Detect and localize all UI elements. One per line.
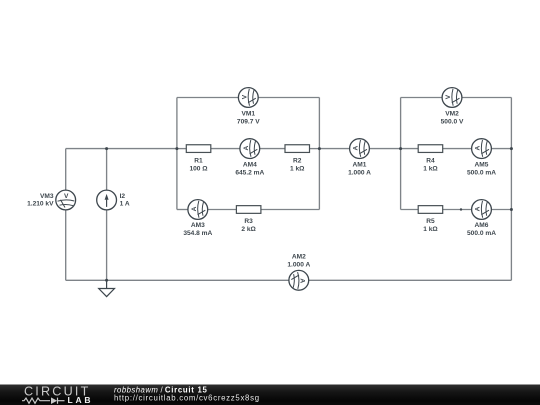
- svg-text:LAB: LAB: [68, 395, 94, 405]
- wire VM3 vertical top: [65, 149, 67, 191]
- wire mid branch to R1: [177, 148, 186, 150]
- svg-text:V: V: [64, 193, 69, 200]
- svg-text:A: A: [299, 278, 306, 283]
- wire R1 to AM4: [211, 148, 240, 150]
- wire top branch VM2 left: [401, 97, 443, 99]
- wire bottom branch to AM3: [177, 209, 188, 211]
- wire VM3 vertical bottom: [65, 210, 67, 280]
- svg-text:354.8 mA: 354.8 mA: [183, 230, 212, 237]
- svg-text:A: A: [475, 206, 482, 211]
- wire AM5 to node: [491, 148, 511, 150]
- wire top branch VM1 left: [177, 97, 239, 99]
- current source I2: [97, 190, 117, 210]
- ammeter AM1: [350, 139, 370, 159]
- wire node to AM1: [319, 148, 349, 150]
- svg-text:AM2: AM2: [292, 254, 306, 261]
- svg-text:VM2: VM2: [445, 110, 459, 117]
- svg-text:R3: R3: [244, 218, 253, 225]
- svg-text:1.000 A: 1.000 A: [287, 262, 310, 269]
- svg-text:500.0 mA: 500.0 mA: [467, 169, 496, 176]
- svg-text:1 A: 1 A: [120, 200, 130, 207]
- wire to R4: [401, 148, 419, 150]
- svg-text:VM1: VM1: [242, 110, 256, 117]
- logo resistor zigzag and diode glyph: [22, 398, 65, 404]
- wire AM6 to node: [491, 209, 511, 211]
- svg-text:100 Ω: 100 Ω: [189, 165, 208, 172]
- resistor R3: [236, 206, 261, 214]
- svg-text:V: V: [445, 94, 452, 99]
- resistor R5: [418, 206, 443, 214]
- wire R2 to node: [310, 148, 320, 150]
- svg-text:VM3: VM3: [40, 193, 54, 200]
- svg-text:1.000 A: 1.000 A: [348, 169, 371, 176]
- wire R3 to corner: [261, 209, 320, 211]
- svg-text:1 kΩ: 1 kΩ: [423, 165, 438, 172]
- svg-text:A: A: [243, 145, 250, 150]
- junction node left-block/mid branch: [175, 147, 178, 150]
- voltmeter VM3: [56, 190, 76, 210]
- svg-text:AM1: AM1: [353, 161, 367, 168]
- svg-text:A: A: [191, 206, 198, 211]
- wire right-block right vertical: [510, 98, 512, 281]
- svg-text:500.0 V: 500.0 V: [441, 118, 464, 125]
- svg-text:A: A: [475, 145, 482, 150]
- svg-text:A: A: [353, 145, 360, 150]
- junction node R5-AM6: [460, 208, 462, 210]
- wire AM3 to R3: [208, 209, 237, 211]
- wire I2 vertical top: [106, 149, 108, 190]
- wire bottom right of AM2: [309, 279, 512, 281]
- svg-text:500.0 mA: 500.0 mA: [467, 230, 496, 237]
- svg-text:1 kΩ: 1 kΩ: [423, 226, 438, 233]
- wire middle-block left vertical: [176, 98, 178, 210]
- wire R4 to AM5: [443, 148, 472, 150]
- wire I2 vertical bottom: [106, 210, 108, 280]
- svg-text:I2: I2: [120, 193, 126, 200]
- junction node right-block mid left: [399, 147, 402, 150]
- wire top-left feed: [66, 148, 177, 150]
- junction node mid-branch right: [318, 147, 321, 150]
- ammeter AM5: [472, 139, 492, 159]
- svg-text:AM5: AM5: [475, 161, 489, 168]
- resistor R2: [285, 145, 310, 153]
- svg-text:R4: R4: [426, 157, 435, 164]
- ammeter AM3: [188, 200, 208, 220]
- svg-text:R2: R2: [293, 157, 302, 164]
- ammeter AM4: [240, 139, 260, 159]
- wire bottom left of AM2: [66, 279, 289, 281]
- resistor R4: [418, 145, 443, 153]
- wire to R5: [401, 209, 419, 211]
- voltmeter VM2: [442, 88, 462, 108]
- wire top branch VM1 right: [258, 97, 319, 99]
- ammeter AM6: [472, 200, 492, 220]
- svg-text:http://circuitlab.com/cv6crezz: http://circuitlab.com/cv6crezz5x8sg: [114, 393, 260, 402]
- svg-text:R5: R5: [426, 218, 435, 225]
- wire AM4 to R2: [260, 148, 285, 150]
- svg-text:R1: R1: [194, 157, 203, 164]
- junction node ground: [105, 279, 108, 282]
- junction node right-block mid right: [510, 147, 513, 150]
- svg-text:AM4: AM4: [243, 161, 257, 168]
- ground: [99, 280, 115, 296]
- wire middle-block right vertical: [318, 98, 320, 210]
- footer bar: [0, 385, 540, 405]
- voltmeter VM1: [238, 88, 258, 108]
- svg-text:645.2 mA: 645.2 mA: [235, 169, 264, 176]
- junction node right-block bottom right: [510, 208, 513, 211]
- svg-text:AM6: AM6: [475, 222, 489, 229]
- ammeter AM2: [289, 270, 309, 290]
- svg-text:1.210 kV: 1.210 kV: [27, 200, 54, 207]
- svg-text:1 kΩ: 1 kΩ: [290, 165, 305, 172]
- svg-text:AM3: AM3: [191, 222, 205, 229]
- wire top branch VM2 right: [462, 97, 512, 99]
- resistor R1: [186, 145, 211, 153]
- svg-text:709.7 V: 709.7 V: [237, 118, 260, 125]
- junction node I2/top wire: [105, 147, 108, 150]
- svg-text:V: V: [241, 94, 248, 99]
- wire AM1 to right block: [369, 148, 400, 150]
- svg-text:2 kΩ: 2 kΩ: [241, 226, 256, 233]
- wire right-block left vertical: [400, 98, 402, 210]
- wire R5 to AM6: [443, 209, 472, 211]
